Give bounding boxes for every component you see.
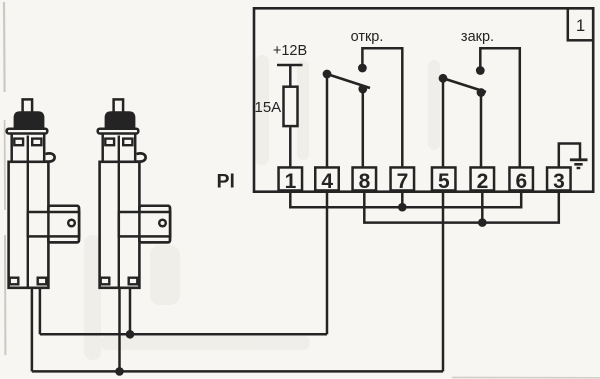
svg-text:3: 3 <box>553 170 565 193</box>
terminal 2 <box>471 167 495 192</box>
svg-text:6: 6 <box>516 170 528 193</box>
right window <box>32 139 41 146</box>
side clip nub <box>46 153 55 161</box>
collar housing <box>12 133 45 164</box>
terminal 5 <box>432 167 456 192</box>
collar housing <box>103 133 136 164</box>
junction actuator M2 left lead <box>115 367 124 376</box>
terminal 1 <box>279 167 303 192</box>
center seam <box>118 136 120 287</box>
left window <box>14 139 23 146</box>
bracket plate <box>48 206 79 243</box>
mounting flange <box>7 129 48 134</box>
wire terminal 5 down <box>442 191 445 371</box>
left foot slot <box>101 278 110 285</box>
wire terminal 5 to relay pole <box>442 78 445 167</box>
relay закр NC contact dot <box>477 88 486 97</box>
wire bus to actuator left leads <box>32 370 443 373</box>
terminal 3 <box>547 167 571 192</box>
left foot slot <box>10 278 19 285</box>
plunger rod <box>23 99 32 112</box>
bracket hole <box>68 220 75 227</box>
terminal 4 <box>315 167 339 192</box>
terminal 6 <box>509 167 533 192</box>
actuator M1 <box>7 99 80 287</box>
wire terminal 4 down <box>326 191 329 334</box>
wire terminal 3 to ground <box>559 144 580 168</box>
+12V supply terminal bar <box>277 64 303 67</box>
bracket hole <box>159 220 166 227</box>
right foot slot <box>38 278 47 285</box>
mounting flange <box>98 129 139 134</box>
actuator M1 right lead wire <box>39 286 42 334</box>
svg-text:Pl: Pl <box>217 171 235 193</box>
bracket plate <box>139 206 170 243</box>
svg-text:откр.: откр. <box>351 29 384 45</box>
stub terminal 2 to bus <box>481 191 484 223</box>
svg-text:закр.: закр. <box>461 29 494 45</box>
svg-text:4: 4 <box>321 170 333 193</box>
terminal 7 <box>391 167 415 192</box>
control unit box U1 <box>254 8 593 191</box>
motor body <box>9 162 49 288</box>
right window <box>123 139 132 146</box>
stub terminal 7 to bus <box>401 191 404 207</box>
actuator M2 left lead wire <box>118 286 121 371</box>
left window <box>105 139 114 146</box>
wire NC contact to terminal 8 <box>362 89 365 167</box>
bus wire terminals 1-7-6 <box>290 191 521 207</box>
motor body <box>100 162 140 288</box>
bus wire terminals 8-2-3 <box>364 191 559 223</box>
ground symbol <box>570 160 588 168</box>
actuator M2 <box>98 99 171 287</box>
svg-text:1: 1 <box>576 16 585 35</box>
relay откр NO contact dot <box>358 64 367 73</box>
actuator M1 left lead wire <box>31 286 34 371</box>
rubber boot <box>14 111 45 131</box>
wire bus to actuator right leads <box>40 333 327 336</box>
rubber boot <box>105 111 136 131</box>
right foot slot <box>129 278 138 285</box>
wire NO contact to terminal 7 <box>362 48 402 167</box>
relay откр NC contact dot <box>358 85 367 94</box>
connector key box 1 <box>568 8 593 40</box>
relay откр pole dot <box>323 70 332 79</box>
actuator M2 right lead wire <box>129 286 132 334</box>
svg-text:1: 1 <box>285 170 297 193</box>
wire NC contact to terminal 2 <box>480 93 483 168</box>
relay закр pole dot <box>439 74 448 83</box>
fuse F1 <box>284 87 298 126</box>
plunger rod <box>114 99 124 112</box>
junction terminal 2 bus <box>478 218 487 227</box>
relay закр NO contact dot <box>476 66 485 75</box>
svg-text:2: 2 <box>477 170 489 193</box>
wire terminal 4 to relay pole <box>326 74 329 167</box>
relay откр arm <box>327 74 370 88</box>
junction actuator M2 right lead <box>126 330 135 339</box>
bracket arm <box>28 212 79 236</box>
svg-text:7: 7 <box>397 170 409 193</box>
svg-text:15А: 15А <box>255 99 282 116</box>
wire fuse to terminal 1 <box>289 127 292 167</box>
bracket arm <box>119 212 170 236</box>
svg-text:8: 8 <box>359 170 371 193</box>
svg-text:+12В: +12В <box>273 43 307 59</box>
relay закр arm <box>443 78 486 92</box>
side clip nub <box>137 153 146 161</box>
wire +12V bar to fuse <box>289 65 292 87</box>
wire NO contact to terminal 6 <box>480 48 520 167</box>
junction terminal 7 bus <box>398 203 407 212</box>
terminal 8 <box>353 167 377 192</box>
svg-text:5: 5 <box>438 170 450 193</box>
center seam <box>27 136 29 287</box>
